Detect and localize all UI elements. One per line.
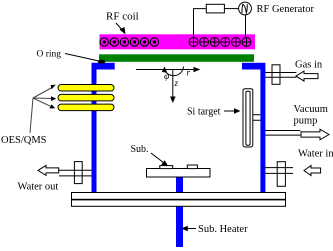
gas in pipe flange — [272, 65, 280, 85]
svg-text:RF Generator: RF Generator — [257, 4, 315, 15]
quartz window (green plate) — [99, 54, 254, 62]
z axis — [170, 70, 179, 104]
water in pipe flange — [277, 162, 285, 187]
left flange — [92, 63, 115, 70]
O ring label — [37, 50, 100, 62]
substrate heater rod — [176, 177, 183, 247]
OES/QMS viewport 1 — [58, 85, 114, 92]
O ring (black dot) — [98, 60, 106, 64]
RF coil (magenta bar) — [100, 34, 256, 49]
RF coil label — [106, 11, 139, 35]
RF generator wire right — [245, 15, 247, 38]
Vacuum pump label — [294, 104, 328, 127]
water out pipe flange — [74, 162, 82, 184]
coil turns left: current out of page (dot circles) — [100, 38, 159, 46]
base plate lower — [72, 200, 286, 206]
svg-text:Gas in: Gas in — [295, 60, 323, 71]
right flange — [242, 63, 265, 70]
gas in arrow (hollow, pointing left) — [296, 71, 318, 81]
substrate right — [187, 165, 197, 169]
base plate upper — [72, 193, 286, 200]
svg-text:Water in: Water in — [298, 149, 333, 160]
svg-text:Water out: Water out — [18, 182, 59, 193]
r axis — [136, 67, 200, 78]
right chamber wall — [260, 70, 265, 193]
svg-text:OES/QMS: OES/QMS — [1, 135, 47, 146]
water out pipe — [59, 170, 92, 176]
vacuum arrow (hollow, pointing right) — [301, 129, 329, 140]
svg-text:Vacuum: Vacuum — [294, 104, 328, 115]
Si target stem — [253, 115, 261, 121]
OES/QMS viewport 2 — [58, 94, 114, 101]
svg-text:RF coil: RF coil — [106, 11, 139, 23]
Sub. Heater label — [181, 224, 248, 235]
water in pipe — [263, 168, 293, 174]
AC source sine symbol — [242, 4, 247, 13]
substrate holder — [147, 169, 211, 178]
svg-text:Si target: Si target — [187, 107, 221, 118]
RF generator wire middle — [224, 8, 238, 10]
Si target label — [187, 107, 241, 118]
vacuum pipe — [265, 131, 300, 136]
OES/QMS arrow 3 — [33, 98, 55, 109]
svg-text:Sub. Heater: Sub. Heater — [198, 224, 248, 235]
RF generator wire left — [194, 9, 207, 38]
gas in pipe — [265, 73, 296, 78]
svg-text:z: z — [174, 78, 179, 88]
svg-text:O ring: O ring — [37, 50, 62, 60]
AC source circle — [239, 2, 252, 15]
water out arrow (hollow, pointing left) — [38, 165, 59, 175]
OES/QMS arrow 1 — [33, 85, 56, 98]
svg-text:r: r — [187, 68, 191, 78]
OES/QMS leader line — [30, 98, 33, 133]
Sub. label — [131, 144, 169, 166]
Si target plate — [246, 91, 250, 145]
svg-text:φ: φ — [164, 72, 169, 82]
matching box — [206, 4, 224, 13]
svg-text:pump: pump — [294, 116, 318, 127]
phi rotation arc — [162, 67, 184, 82]
Si target outer holder — [243, 89, 253, 147]
left chamber wall — [92, 70, 97, 193]
OES/QMS arrow 2 — [33, 96, 56, 101]
water in arrow (hollow, pointing left) — [304, 166, 321, 176]
coil turns right: current into page (cross circles) — [189, 38, 251, 47]
svg-text:Sub.: Sub. — [131, 144, 149, 155]
OES/QMS viewport 3 — [58, 104, 114, 111]
substrate left — [160, 166, 173, 169]
